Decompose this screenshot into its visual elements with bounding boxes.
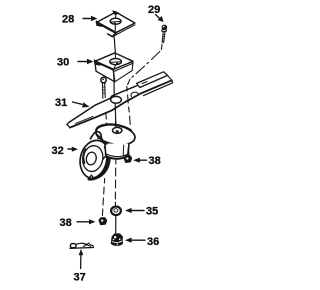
dashed line pulley to nut 38 left — [102, 179, 104, 216]
bolt 29 — [162, 25, 167, 43]
label 32 — [52, 145, 79, 157]
blade 31 — [67, 72, 173, 128]
dash-dot leader from bolt 29 to blade hole — [128, 45, 162, 85]
svg-text:29: 29 — [148, 4, 160, 16]
nut 38 right — [124, 156, 131, 163]
svg-text:37: 37 — [74, 272, 86, 284]
svg-text:32: 32 — [52, 145, 64, 157]
bolt (left, with plate 30) — [101, 77, 106, 98]
label 29 — [148, 4, 164, 22]
hook top connecting pulley to disc — [91, 132, 107, 144]
line washer 35 to nut 36 — [115, 216, 117, 234]
svg-text:38: 38 — [60, 217, 72, 229]
label 38 left — [60, 217, 96, 229]
blade right end and wing — [137, 72, 168, 88]
svg-text:30: 30 — [57, 57, 69, 69]
label 31 — [55, 97, 90, 109]
label 30 — [57, 57, 94, 69]
label 28 — [62, 14, 98, 26]
plate 30 — [94, 53, 133, 82]
dashed line left bolt below blade — [106, 113, 107, 127]
label 36 — [125, 236, 159, 248]
svg-text:38: 38 — [149, 155, 161, 167]
nut 38 left — [99, 218, 106, 225]
dashed line hub to washer 35 — [114, 159, 116, 205]
centerline plate 30 to blade center hole — [114, 74, 116, 128]
pulley of 32 (left ring) — [77, 138, 114, 182]
svg-text:28: 28 — [62, 14, 74, 26]
centerline between plate 28 and plate 30 — [114, 37, 115, 52]
label 38 right — [133, 155, 161, 167]
adapter 32 hub — [103, 144, 129, 160]
short line disc to nut 38R — [128, 146, 130, 155]
svg-text:31: 31 — [55, 97, 67, 109]
dashed line through blade to disc (bolt 29 axis) — [127, 87, 130, 125]
label 37 — [74, 249, 86, 284]
svg-text:36: 36 — [147, 236, 159, 248]
plate 28 — [96, 11, 135, 37]
label 35 — [125, 206, 158, 218]
nut 36 — [111, 234, 122, 245]
key 37 — [70, 243, 94, 248]
svg-text:35: 35 — [146, 206, 158, 218]
adapter 32 disc — [94, 121, 136, 148]
washer 35 — [111, 207, 121, 216]
